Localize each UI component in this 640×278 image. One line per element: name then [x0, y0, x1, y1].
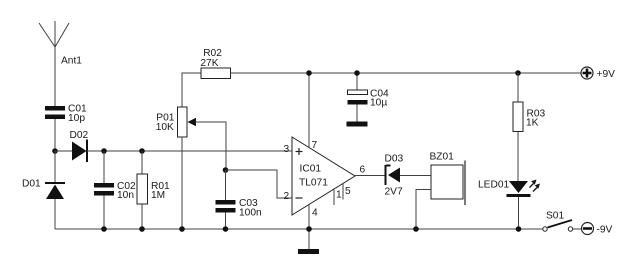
zener diode D03 — [386, 165, 401, 185]
node B junction wiper/C03 — [223, 167, 229, 173]
wire C01 to node A — [54, 119, 56, 151]
resistor R01 — [137, 174, 148, 204]
wire BZ01 second terminal to rail — [416, 190, 431, 230]
wire node B to pin 2 of IC01 — [226, 170, 293, 198]
diode D01 — [45, 183, 65, 199]
wire LED01 to bottom rail — [518, 197, 520, 229]
switch S01 — [543, 220, 573, 231]
wire node A to D01 — [54, 151, 56, 182]
capacitor C01 — [45, 106, 65, 119]
wire rail to R03 — [517, 73, 519, 102]
junction R01 top — [139, 148, 145, 154]
svg-text:Ant1: Ant1 — [61, 56, 82, 67]
capacitor C04 — [348, 90, 368, 105]
wire D02 to pin 3 of IC01 — [87, 150, 292, 152]
svg-text:IC01: IC01 — [300, 163, 322, 174]
junction pin 7 rail — [306, 70, 312, 76]
svg-text:10p: 10p — [68, 113, 85, 124]
junction C03 bottom — [223, 226, 229, 232]
svg-text:+9V: +9V — [597, 69, 616, 80]
wire switch to -9V terminal — [573, 228, 582, 230]
wire R01 to bottom rail — [141, 204, 143, 229]
top rail wire R02 to +9V — [231, 72, 582, 74]
svg-text:1M: 1M — [151, 190, 165, 201]
buzzer BZ01 — [431, 161, 465, 206]
wire node A to D02 — [55, 150, 72, 152]
wire R03 to LED01 — [517, 132, 519, 182]
wire antenna to C01 — [54, 47, 56, 106]
pin 4 wire to ground — [308, 205, 310, 250]
junction pin 4 rail — [306, 226, 312, 232]
wire D03 to BZ01 — [400, 175, 431, 177]
junction C04 rail — [354, 70, 360, 76]
svg-text:D01: D01 — [22, 179, 41, 190]
junction C02 top — [101, 148, 107, 154]
junction C02 bottom — [101, 226, 107, 232]
svg-text:100n: 100n — [239, 208, 262, 219]
pin 1 tick — [333, 190, 335, 206]
capacitor C04 wire from rail — [356, 73, 358, 90]
junction LED01 rail — [516, 226, 522, 232]
resistor R02 — [201, 68, 231, 79]
wire to C02 — [103, 151, 105, 183]
junction R03 rail — [515, 70, 521, 76]
pin 7 wire to +9V rail — [308, 73, 310, 148]
ground symbol op-amp — [298, 249, 319, 254]
wire C04 to ground — [356, 105, 358, 122]
svg-text:D02: D02 — [70, 130, 89, 141]
svg-text:10n: 10n — [117, 190, 134, 201]
svg-text:1: 1 — [336, 190, 342, 201]
node A junction — [52, 148, 58, 154]
svg-text:3: 3 — [284, 144, 290, 155]
svg-text:4: 4 — [312, 207, 318, 218]
wire top rail left to R02 — [182, 73, 201, 107]
minus input symbol — [296, 197, 303, 199]
capacitor C02 — [94, 183, 114, 196]
diode D02 — [72, 140, 87, 163]
wire pin 6 to D03 — [355, 175, 385, 177]
potentiometer P01 — [178, 107, 197, 137]
LED light arrows — [530, 180, 541, 192]
svg-text:2V7: 2V7 — [385, 187, 403, 198]
svg-text:BZ01: BZ01 — [430, 152, 455, 163]
junction BZ01 rail — [413, 226, 419, 232]
svg-text:D03: D03 — [385, 154, 404, 165]
ground symbol C04 — [347, 122, 368, 127]
plus input symbol — [296, 148, 303, 155]
wire P01 bottom to rail — [181, 137, 183, 229]
wire to R01 — [141, 151, 143, 174]
junction P01 bottom — [179, 226, 185, 232]
wire D01 to bottom rail — [54, 199, 56, 229]
svg-text:S01: S01 — [546, 211, 564, 222]
svg-text:10K: 10K — [156, 122, 174, 133]
svg-text:LED01: LED01 — [478, 180, 509, 191]
svg-text:2: 2 — [284, 191, 290, 202]
antenna Ant1 — [39, 21, 69, 47]
wire C02 to bottom rail — [103, 196, 105, 230]
svg-text:1K: 1K — [526, 118, 539, 129]
svg-text:6: 6 — [360, 165, 366, 176]
bottom rail wire — [55, 228, 543, 230]
wire node B to C03 — [225, 170, 227, 200]
svg-text:10µ: 10µ — [370, 98, 387, 109]
wire P01 wiper — [195, 122, 226, 170]
terminal -9V — [582, 223, 594, 235]
capacitor C03 — [216, 200, 236, 213]
pin 5 tick — [342, 184, 344, 200]
svg-text:7: 7 — [312, 140, 318, 151]
svg-text:-9V: -9V — [597, 225, 613, 236]
resistor R03 — [513, 102, 523, 132]
LED LED01 — [507, 181, 531, 196]
svg-text:TL071: TL071 — [299, 177, 328, 188]
wire C03 to bottom rail — [225, 213, 227, 230]
junction R01 bottom — [139, 226, 145, 232]
terminal +9V — [581, 67, 593, 79]
svg-text:27K: 27K — [200, 58, 218, 69]
op-amp IC01 — [292, 137, 355, 215]
svg-text:5: 5 — [345, 186, 351, 197]
